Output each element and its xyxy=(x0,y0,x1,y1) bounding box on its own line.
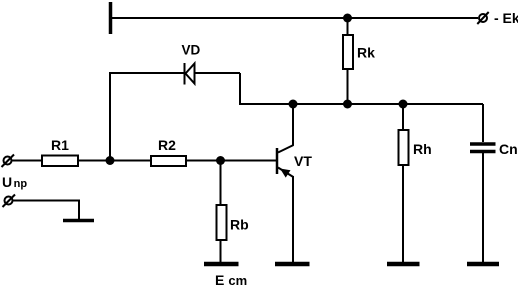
resistor Rk xyxy=(343,35,353,69)
collector diagonal xyxy=(278,145,294,153)
terminal input top (Unp +) xyxy=(2,155,15,168)
terminal bar Ecm xyxy=(204,262,239,267)
wire Rh top lead xyxy=(402,104,404,130)
node top rail / Rk junction xyxy=(343,14,352,23)
terminal input bottom (Unp -) xyxy=(3,195,16,208)
base bar xyxy=(276,148,279,174)
svg-text:Cn: Cn xyxy=(499,141,518,157)
wire R2 to base xyxy=(186,160,277,162)
wire R1 to node A xyxy=(78,160,151,162)
capacitor Cn xyxy=(470,144,496,152)
node Rk / middle rail xyxy=(343,100,352,109)
terminal -Ek xyxy=(477,12,488,24)
wire Rk top lead xyxy=(347,18,349,35)
diode VD xyxy=(185,63,195,85)
wire Rk bottom lead xyxy=(347,69,349,104)
svg-text:Unp: Unp xyxy=(2,174,27,190)
resistor R2 xyxy=(151,156,186,166)
transistor VT xyxy=(277,145,294,178)
wire input to R1 xyxy=(12,160,42,162)
resistor Rh xyxy=(399,130,409,165)
wire node B to Rb xyxy=(220,161,222,206)
wire input bottom to ground xyxy=(13,201,79,220)
node B (R2/Rb/base) xyxy=(216,156,225,165)
wire Rh bottom lead xyxy=(402,165,404,263)
wire Rb bottom lead xyxy=(220,240,222,263)
svg-text:- Ek: - Ek xyxy=(494,10,518,26)
node A (R1/R2/diode branch) xyxy=(106,156,115,165)
wire Cn top lead xyxy=(482,104,484,142)
node Rh / middle rail xyxy=(399,100,408,109)
emitter diagonal xyxy=(278,168,293,178)
wire diode anode to corner xyxy=(195,72,241,74)
ground Cn xyxy=(467,262,499,267)
wire top rail xyxy=(112,17,478,19)
wire emitter to ground xyxy=(292,176,294,263)
emitter arrow (PNP, pointing to base) xyxy=(280,169,291,178)
power bus bar (left terminal of top rail) xyxy=(109,2,113,34)
resistor R1 xyxy=(42,156,78,167)
ground input xyxy=(63,219,94,223)
svg-text:VD: VD xyxy=(182,43,201,58)
wire middle rail xyxy=(240,73,483,104)
node collector / middle rail xyxy=(289,100,298,109)
svg-text:Rb: Rb xyxy=(230,217,249,233)
wire collector xyxy=(292,104,294,146)
svg-text:Ecm: Ecm xyxy=(215,272,247,287)
svg-text:R1: R1 xyxy=(51,137,69,153)
ground Rh xyxy=(387,262,420,267)
svg-text:R2: R2 xyxy=(158,137,176,153)
ground emitter xyxy=(275,262,310,267)
wire Cn bottom lead xyxy=(482,153,484,263)
svg-text:VT: VT xyxy=(294,153,312,169)
svg-text:Rk: Rk xyxy=(357,45,375,61)
resistor Rb xyxy=(217,205,227,240)
svg-text:Rh: Rh xyxy=(413,141,432,157)
wire diode branch (from R1/R2 node up and right to diode) xyxy=(110,73,184,161)
